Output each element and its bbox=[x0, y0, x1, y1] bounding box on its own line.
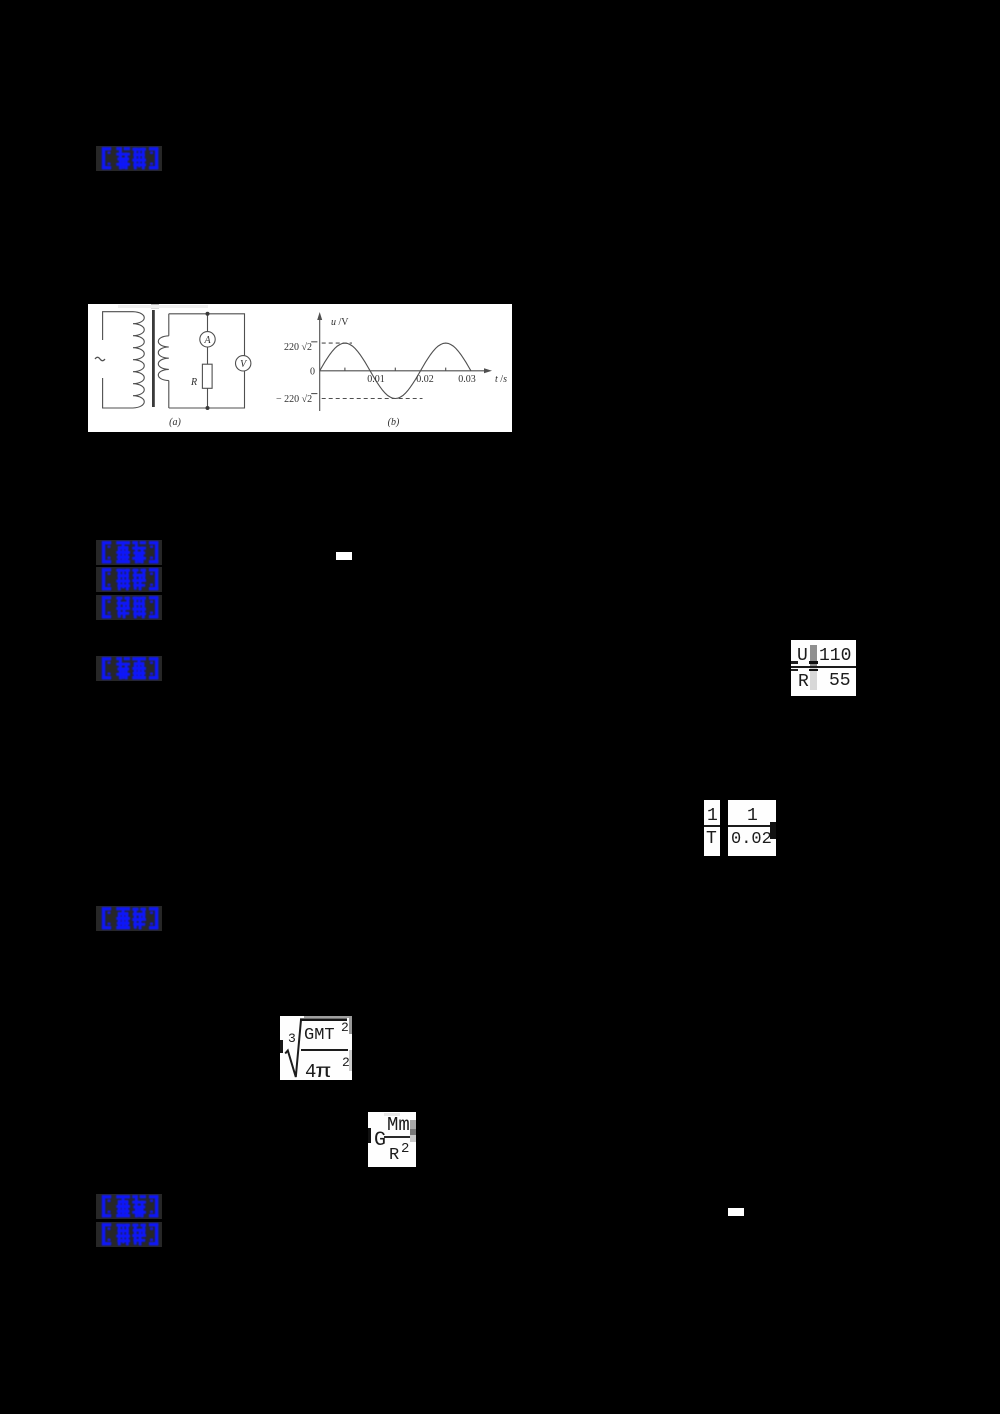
overbar of sqrt2 (neg) bbox=[311, 392, 317, 395]
figure: transformer circuit (a) + voltage waveform graph (b) bbox=[88, 304, 512, 432]
svg-text:A: A bbox=[203, 335, 211, 346]
marker 专题 bbox=[96, 567, 162, 592]
ammeter A1 bbox=[200, 332, 215, 347]
marker 解答 bbox=[96, 656, 162, 681]
formula image: 1/0.02 (with clipped H of Hz at right edge) bbox=[728, 800, 776, 856]
graph x-axis bbox=[320, 370, 487, 372]
wire: secondary left verticals bbox=[168, 314, 170, 408]
svg-text:− 220 √2: − 220 √2 bbox=[276, 394, 312, 405]
svg-text:0: 0 bbox=[310, 367, 315, 378]
voltmeter V1 bbox=[236, 356, 251, 371]
y-axis arrowhead bbox=[317, 312, 322, 320]
primary winding L1 bbox=[133, 312, 144, 408]
sine curve u(t) bbox=[320, 343, 471, 398]
scan artifact notch bbox=[151, 304, 159, 309]
tick 0.005 bbox=[344, 368, 346, 371]
dashed level -220sqrt2 bbox=[322, 398, 423, 400]
tick 0.025 bbox=[445, 368, 447, 371]
wire: primary loop top bbox=[103, 312, 133, 340]
marker 分析 bbox=[96, 595, 162, 620]
marker 专题 (Q2) bbox=[96, 1222, 162, 1247]
svg-text:R: R bbox=[190, 377, 197, 388]
svg-text:(a): (a) bbox=[169, 417, 181, 428]
formula image: = U/R = 110/55 bbox=[791, 640, 856, 696]
wire: middle branch bbox=[207, 314, 209, 408]
svg-text:0.02: 0.02 bbox=[416, 374, 434, 385]
dashed level +220sqrt2 bbox=[322, 342, 352, 344]
white dash image 2 bbox=[728, 1208, 744, 1216]
svg-text:u /V: u /V bbox=[331, 317, 349, 328]
AC source ~ bbox=[95, 357, 105, 361]
wire: primary loop bottom bbox=[103, 378, 133, 408]
svg-text:0.01: 0.01 bbox=[367, 374, 385, 385]
wire: secondary loop top/right/bottom bbox=[169, 314, 245, 408]
tick 0.015 bbox=[394, 368, 396, 371]
marker 解析 (blue tag, previous answer block) bbox=[96, 146, 162, 171]
marker 点评 bbox=[96, 906, 162, 931]
formula image: cube root (GMT^2 / 4pi^2) bbox=[280, 1016, 352, 1080]
overbar of sqrt2 bbox=[311, 340, 317, 343]
formula image: G Mm/R^2 bbox=[368, 1112, 416, 1167]
secondary winding L2 bbox=[158, 336, 169, 381]
marker 考点 (Q2) bbox=[96, 1194, 162, 1219]
marker 考点 bbox=[96, 540, 162, 565]
svg-text:t /s: t /s bbox=[495, 374, 507, 385]
formula image: 1/T bbox=[704, 800, 720, 856]
svg-text:220 √2: 220 √2 bbox=[284, 342, 312, 353]
white dash image 1 bbox=[336, 552, 352, 560]
resistor R bbox=[202, 364, 212, 388]
graph y-axis bbox=[319, 319, 321, 411]
x-axis arrowhead bbox=[484, 368, 492, 373]
node: top junction bbox=[206, 312, 210, 316]
svg-text:0.03: 0.03 bbox=[458, 374, 476, 385]
transformer core bbox=[152, 310, 155, 407]
node: bottom junction bbox=[206, 406, 210, 410]
svg-text:(b): (b) bbox=[388, 417, 400, 428]
